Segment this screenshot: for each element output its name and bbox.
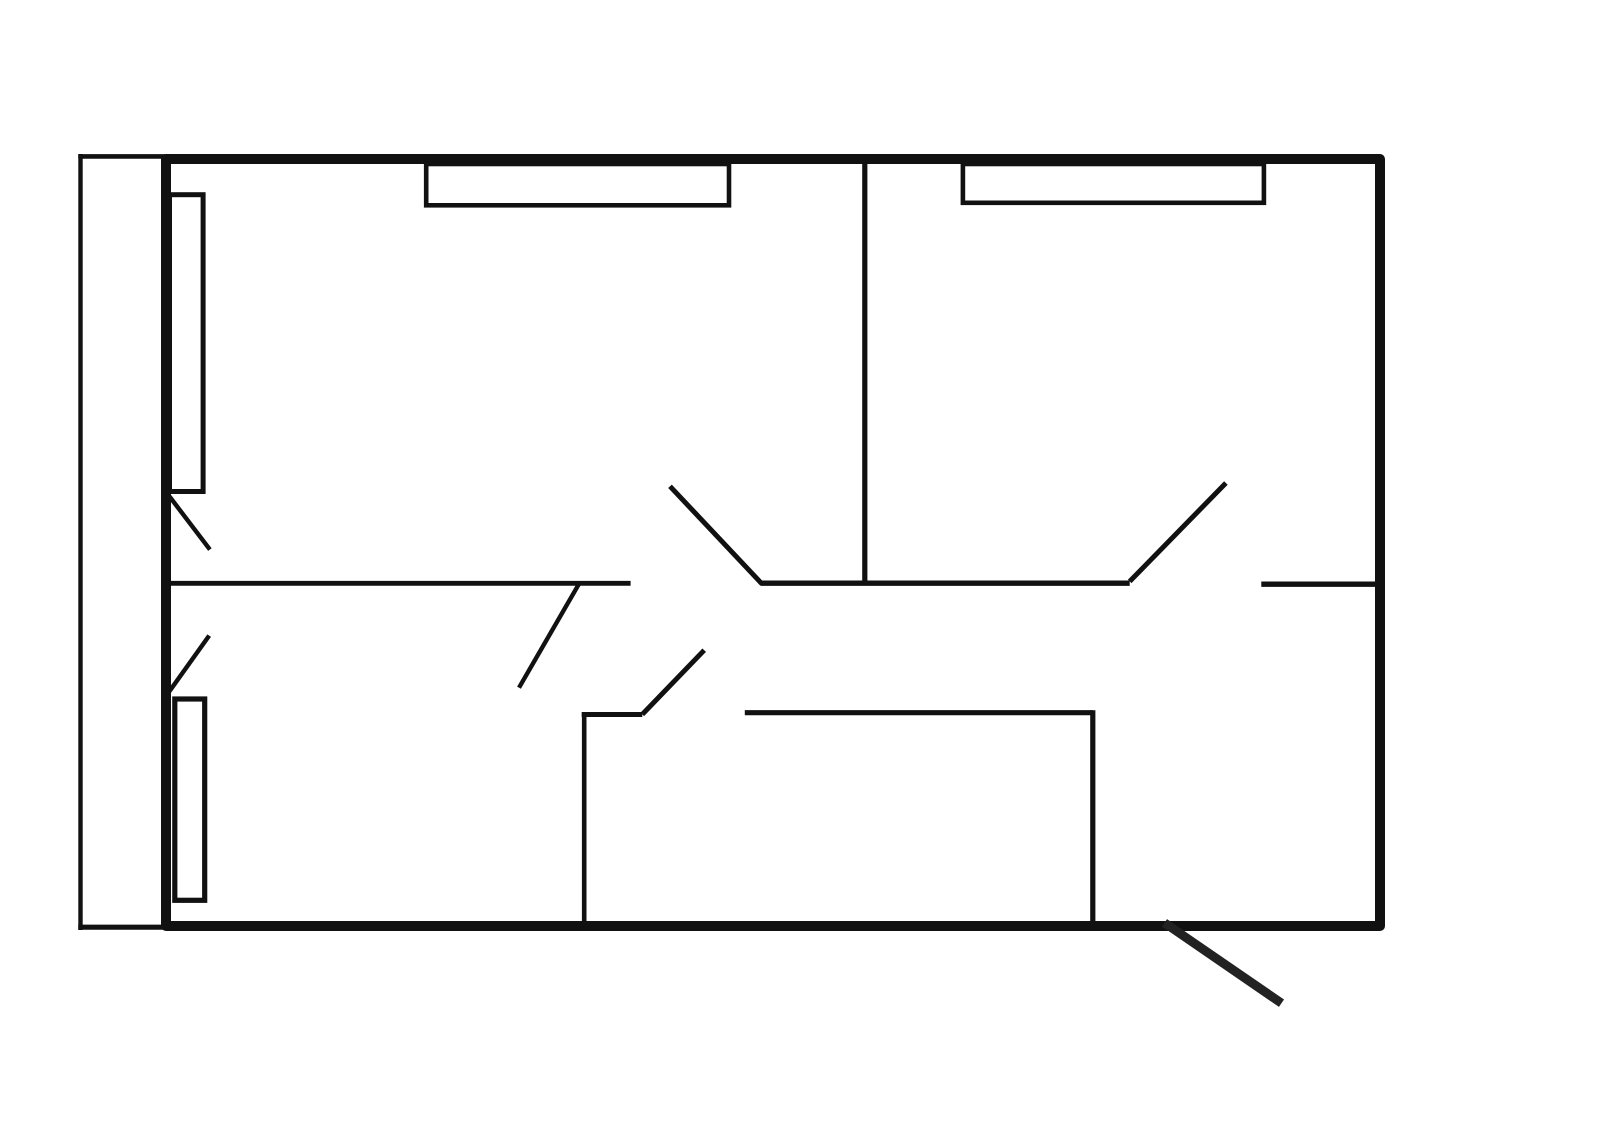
door swing D2 (balcony door lower) [169,636,209,692]
lower-right room wall H5 [745,710,1093,715]
balcony left wall [78,154,82,930]
window W4 (top wall, right room) [963,164,1264,203]
window W1 (upper left wall) [170,195,204,492]
door swing D4 (upper-left room door) [670,486,762,584]
door swing D5 (upper-right room door) [1130,483,1226,581]
outer wall (main apartment perimeter) [166,159,1380,926]
door swing D1 (balcony door upper) [170,497,210,550]
interior wall V1 (vertical between top rooms) [862,163,867,585]
door swing D3 (lower-left room door) [519,584,579,688]
interior wall H2 (middle horizontal) [761,581,1130,586]
lower-left room wall H4 [582,712,643,717]
interior wall H1 (left horizontal) [166,581,631,586]
lower-right room wall V3 [1090,710,1095,925]
door swing D6 (lower-left room inner door) [642,650,704,714]
balcony bottom wall [78,925,166,930]
interior wall H3 (right horizontal) [1261,582,1380,587]
window W2 (lower left wall) [175,699,205,900]
entry door leaf D7 (open, bottom right, thick) [1165,923,1282,1003]
window W3 (top wall, left room) [426,164,729,205]
lower-left room wall V2 [582,712,587,925]
balcony top wall [78,154,166,159]
